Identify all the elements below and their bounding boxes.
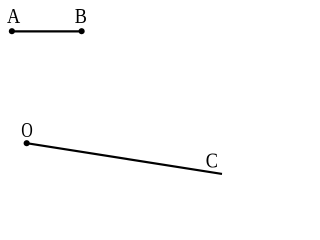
wire ray OC bbox=[27, 143, 222, 174]
svg-text:B: B bbox=[75, 5, 87, 28]
node A bbox=[9, 28, 15, 34]
node B bbox=[79, 28, 85, 34]
svg-text:O: O bbox=[21, 119, 33, 143]
wire segment AB bbox=[12, 30, 82, 32]
node O bbox=[24, 140, 30, 146]
svg-text:C: C bbox=[206, 149, 218, 172]
svg-text:A: A bbox=[7, 5, 21, 28]
